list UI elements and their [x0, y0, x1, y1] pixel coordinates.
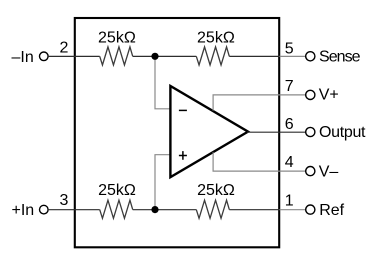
wire node B segment [133, 209, 197, 211]
junction node B dot [151, 206, 158, 213]
terminal Output (pin 6) [306, 127, 315, 136]
svg-text:Output: Output [319, 124, 366, 141]
op-amp minus input marker [179, 109, 187, 111]
wire output to pin 6 [247, 131, 305, 133]
svg-text:+In: +In [12, 202, 35, 219]
svg-text:25kΩ: 25kΩ [197, 30, 235, 47]
svg-text:6: 6 [285, 116, 294, 133]
svg-text:7: 7 [285, 78, 294, 95]
svg-text:2: 2 [60, 40, 69, 57]
svg-text:V+: V+ [319, 87, 339, 104]
wire Sense pigtail outside box [280, 55, 306, 57]
terminal V+ (pin 7) [306, 90, 315, 99]
svg-text:25kΩ: 25kΩ [98, 182, 136, 199]
terminal +In (pin 3) [40, 205, 49, 214]
IC package outline box [75, 18, 279, 247]
resistor R4 25k (bottom-right) [196, 200, 229, 218]
wire +In stub to box [49, 209, 100, 211]
resistor R3 25k (bottom-left) [100, 200, 133, 218]
wire -In stub to box [49, 55, 100, 57]
op-amp plus input marker [179, 151, 187, 160]
terminal Sense (pin 5) [306, 52, 315, 61]
wire V+ (pin 7) to top edge of op-amp [213, 95, 305, 111]
wire to Sense pin 5 [229, 55, 279, 57]
wire V- (pin 4) to bottom edge of op-amp [213, 152, 305, 171]
svg-text:4: 4 [285, 154, 294, 171]
op-amp U1 triangle [170, 86, 248, 177]
terminal V- (pin 4) [306, 167, 315, 176]
terminal Ref (pin 1) [306, 205, 315, 214]
svg-text:1: 1 [285, 193, 294, 210]
wire to Ref pin 1 [229, 209, 279, 211]
svg-text:V–: V– [319, 163, 339, 180]
svg-text:Ref: Ref [319, 202, 344, 219]
svg-text:5: 5 [285, 40, 294, 57]
wire node A down to inverting input [155, 56, 170, 109]
wire Ref pigtail outside box [280, 209, 306, 211]
svg-text:–In: –In [12, 49, 34, 66]
resistor R1 25k (top-left) [100, 47, 133, 65]
svg-text:25kΩ: 25kΩ [197, 182, 235, 199]
wire node B up to non-inverting input [155, 155, 170, 210]
terminal -In (pin 2) [40, 52, 49, 61]
wire node A segment [133, 55, 197, 57]
svg-text:Sense: Sense [319, 49, 361, 66]
svg-text:3: 3 [60, 192, 69, 209]
resistor R2 25k (top-right) [196, 47, 229, 65]
junction node A dot [151, 53, 158, 60]
svg-text:25kΩ: 25kΩ [98, 30, 136, 47]
